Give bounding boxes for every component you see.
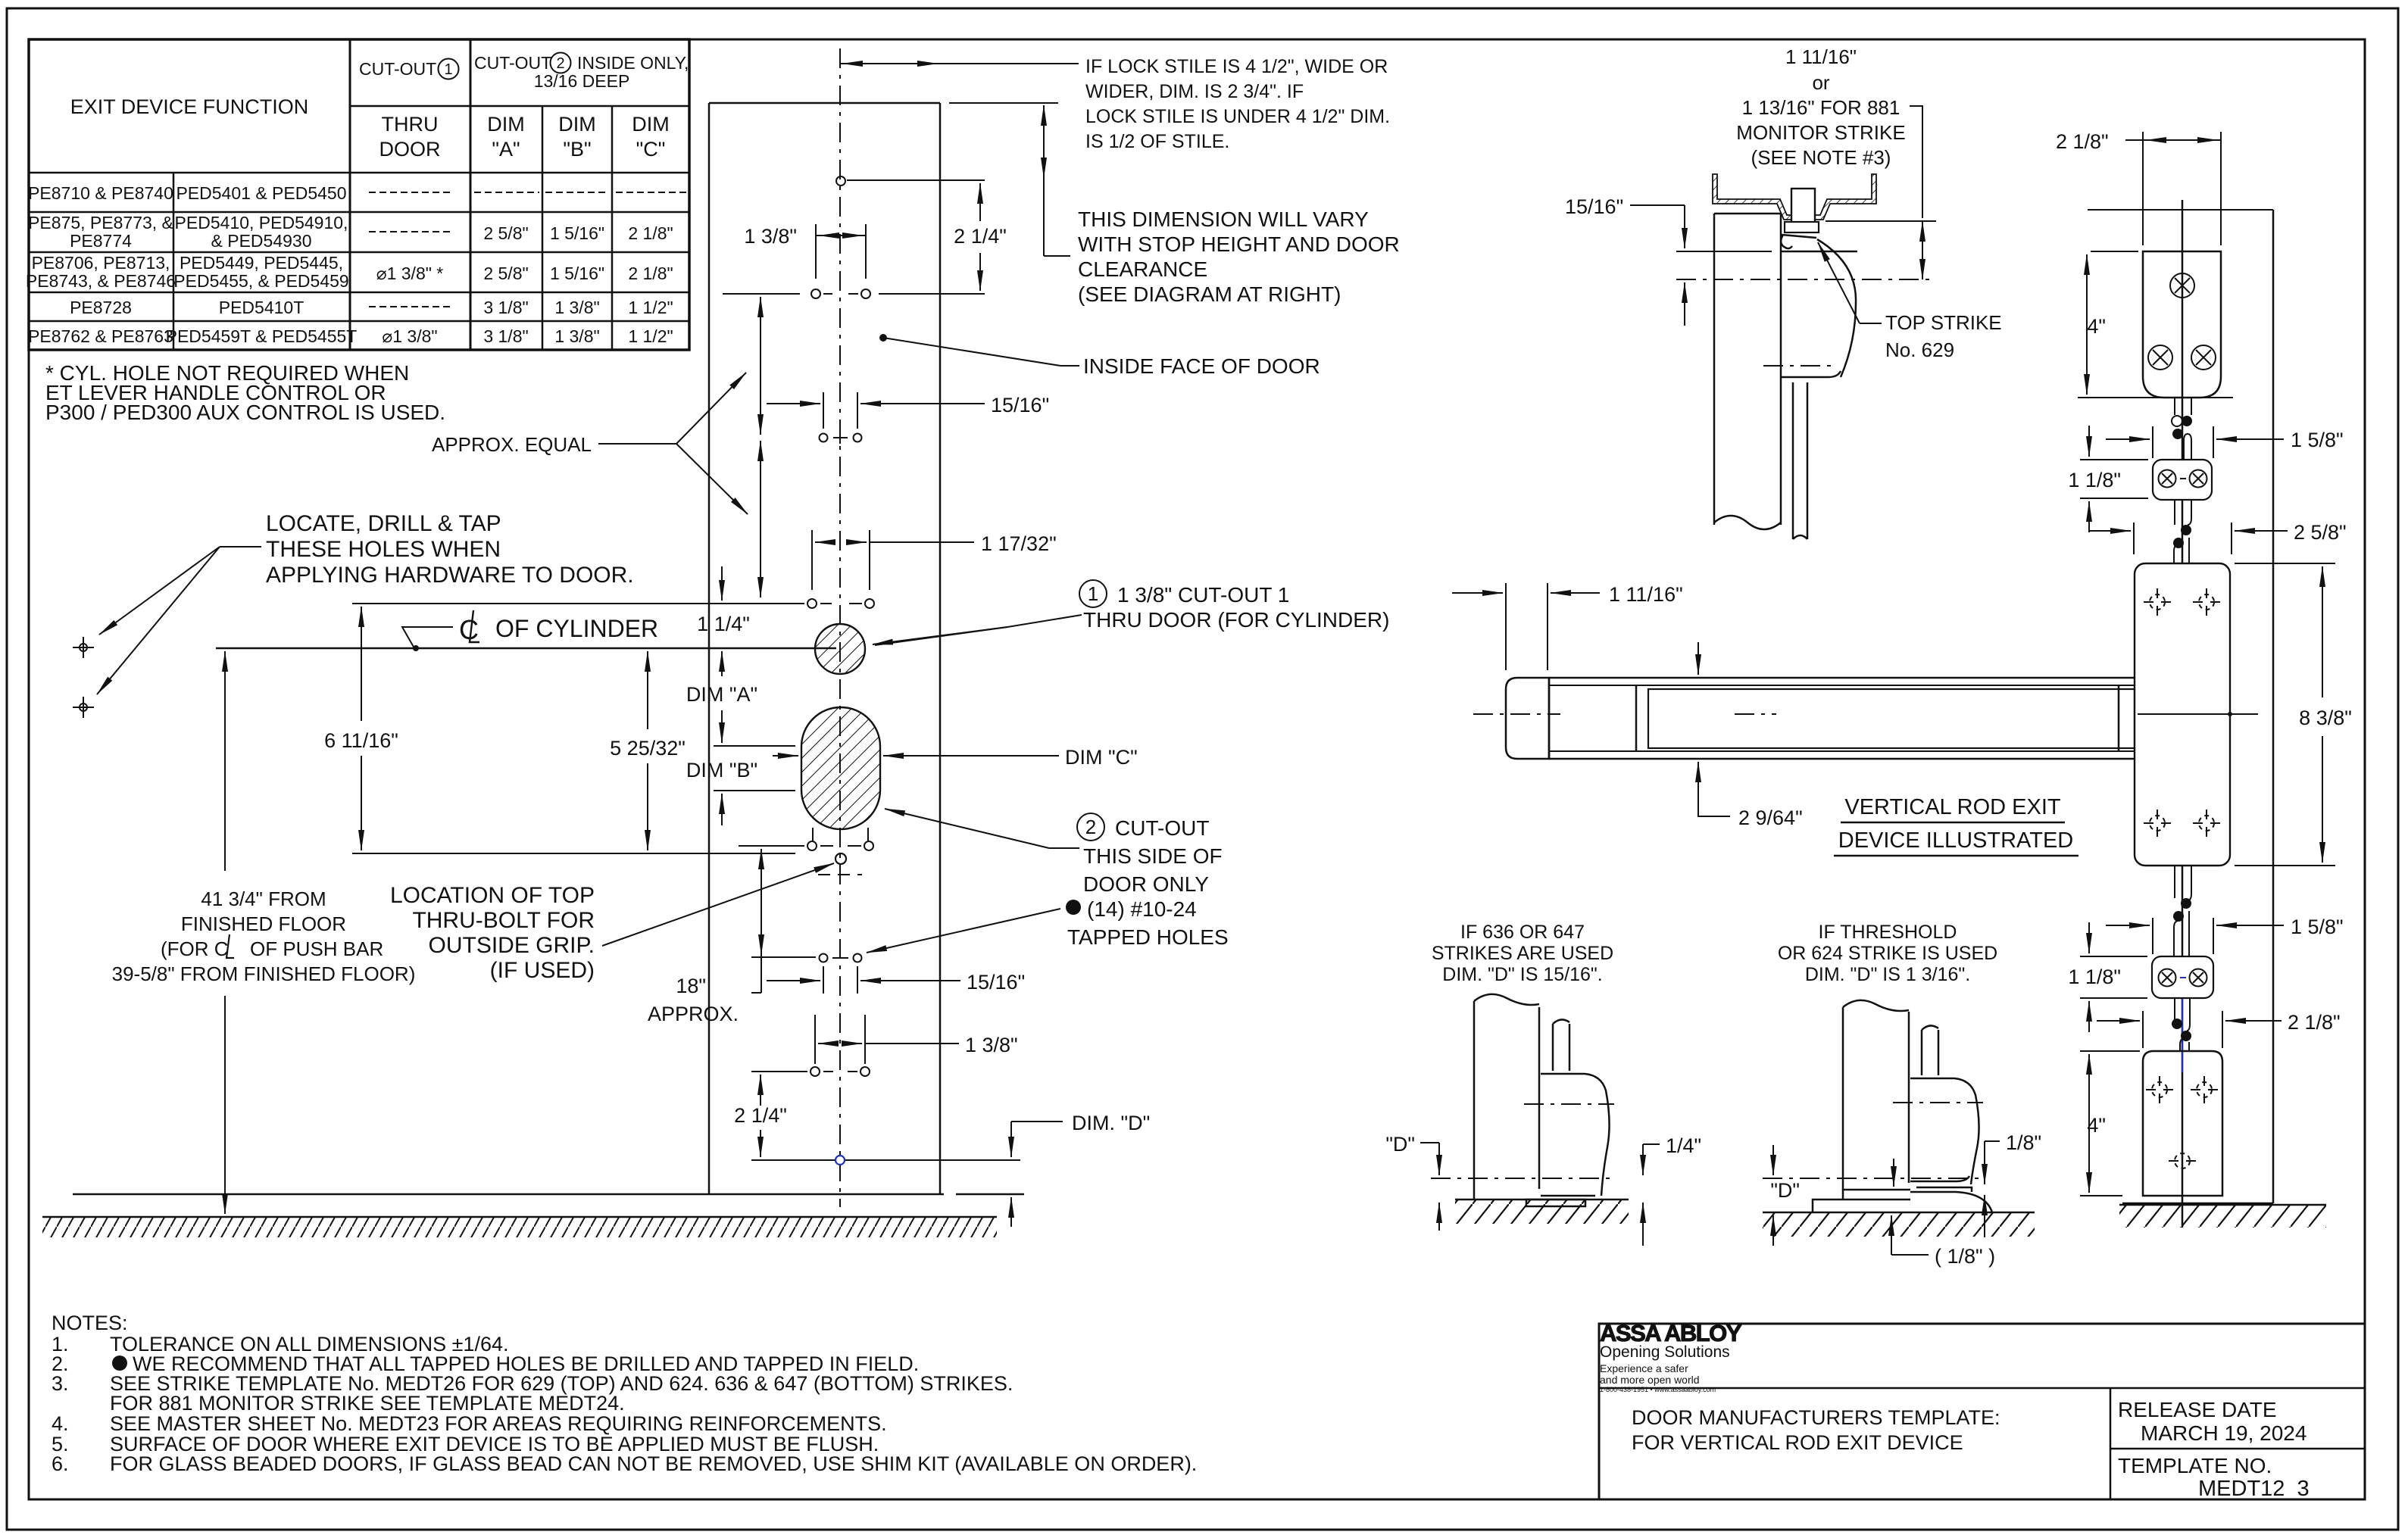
svg-text:4": 4": [2087, 315, 2106, 338]
svg-text:IF 636 OR 647: IF 636 OR 647: [1460, 922, 1585, 943]
svg-text:5 25/32": 5 25/32": [610, 737, 686, 760]
door section left face: [1713, 214, 1716, 525]
svg-text:"D": "D": [1770, 1179, 1800, 1202]
svg-text:1 1/4": 1 1/4": [697, 613, 750, 635]
svg-text:1 1/2": 1 1/2": [628, 326, 673, 346]
svg-text:(FOR C: (FOR C: [161, 937, 229, 960]
svg-text:PE8706, PE8713,: PE8706, PE8713,: [32, 253, 170, 273]
svg-text:6 11/16": 6 11/16": [324, 729, 398, 752]
logo cell divider: [1599, 1387, 2365, 1390]
svg-text:PED5401 & PED5450: PED5401 & PED5450: [176, 183, 346, 203]
svg-text:3 1/8": 3 1/8": [483, 298, 528, 317]
rod below case: [2174, 866, 2175, 898]
svg-text:1 3/8" CUT-OUT 1: 1 3/8" CUT-OUT 1: [1117, 583, 1289, 607]
top dimension line 2 3/4 stile: [840, 63, 940, 64]
svg-text:15/16": 15/16": [1565, 195, 1623, 218]
svg-text:IF LOCK STILE IS 4 1/2", WIDE: IF LOCK STILE IS 4 1/2", WIDE OR: [1085, 56, 1388, 77]
svg-text:"C": "C": [636, 138, 666, 161]
hole row F: [810, 1067, 820, 1076]
strike case: [1910, 1078, 1979, 1184]
dim 18 approx: [761, 849, 762, 883]
upper rod guide: [2153, 460, 2212, 500]
svg-text:15/16": 15/16": [967, 971, 1025, 994]
CL of cylinder line: [216, 647, 836, 650]
svg-text:⌀1 3/8" *: ⌀1 3/8" *: [376, 264, 444, 283]
bar centerline: [1473, 713, 1560, 715]
svg-text:Experience a safer: Experience a safer: [1600, 1362, 1688, 1374]
svg-text:EXIT DEVICE FUNCTION: EXIT DEVICE FUNCTION: [70, 95, 309, 118]
svg-text:1: 1: [444, 61, 452, 78]
svg-text:OF CYLINDER: OF CYLINDER: [495, 615, 658, 642]
svg-text:18": 18": [676, 975, 706, 997]
svg-text:FINISHED FLOOR: FINISHED FLOOR: [181, 913, 346, 935]
svg-text:DIM "B": DIM "B": [686, 759, 757, 781]
svg-text:3 1/8": 3 1/8": [483, 326, 528, 346]
svg-text:15/16": 15/16": [991, 394, 1049, 416]
svg-text:CUT-OUT: CUT-OUT: [474, 53, 551, 73]
svg-text:STRIKES ARE USED: STRIKES ARE USED: [1432, 943, 1613, 964]
dim 1 1/8 top: [2080, 459, 2148, 460]
dim 15/16 lower: [823, 966, 824, 994]
svg-text:2 1/8": 2 1/8": [2056, 130, 2109, 153]
rod below latch: [1792, 382, 1794, 539]
svg-text:OR 624 STRIKE IS USED: OR 624 STRIKE IS USED: [1778, 943, 1997, 964]
door bottom (right view): [2122, 1203, 2273, 1205]
leader to cylinder: [875, 615, 1082, 645]
svg-text:and more open world: and more open world: [1600, 1374, 1700, 1386]
svg-text:13/16 DEEP: 13/16 DEEP: [534, 71, 630, 91]
hatched cylinder cut-out 1: [815, 624, 865, 674]
dim A bottom line: [714, 745, 795, 747]
svg-text:OF PUSH BAR: OF PUSH BAR: [250, 937, 383, 960]
floor: [1763, 1212, 2035, 1214]
svg-text:INSIDE FACE OF DOOR: INSIDE FACE OF DOOR: [1083, 354, 1320, 378]
door leaf: [1842, 1007, 1844, 1190]
svg-text:39-5/8" FROM FINISHED FLOOR): 39-5/8" FROM FINISHED FLOOR): [112, 962, 416, 985]
svg-text:PED5449, PED5445,: PED5449, PED5445,: [180, 253, 343, 273]
dim 1 5/8 bottom: [2152, 918, 2153, 954]
base plate: [1526, 1200, 1585, 1206]
svg-text:1 1/8": 1 1/8": [2068, 469, 2121, 491]
small arrow inside threshold: [1893, 1159, 1894, 1187]
obround side extension lines: [812, 828, 814, 842]
svg-text:1: 1: [1088, 582, 1098, 605]
svg-text:41 3/4" FROM: 41 3/4" FROM: [201, 888, 326, 910]
svg-text:SEE MASTER SHEET No. MEDT23 FO: SEE MASTER SHEET No. MEDT23 FOR AREAS RE…: [110, 1412, 887, 1435]
svg-text:"B": "B": [563, 138, 591, 161]
leader to obround: [1049, 847, 1079, 849]
bar housing top: [1549, 677, 2135, 679]
svg-text:PED5459T & PED5455T: PED5459T & PED5455T: [166, 326, 358, 346]
centerline dashes: [1893, 1102, 1983, 1103]
svg-text:FOR GLASS BEADED DOORS, IF GLA: FOR GLASS BEADED DOORS, IF GLASS BEAD CA…: [110, 1452, 1197, 1475]
pad end line: [2118, 685, 2120, 751]
svg-text:Opening Solutions: Opening Solutions: [1600, 1343, 1730, 1361]
svg-text:2 1/4": 2 1/4": [734, 1104, 787, 1127]
dim 2 1/4 bottom: [760, 1075, 761, 1106]
svg-text:1-800-438-1951 • www.assaabloy: 1-800-438-1951 • www.assaabloy.com: [1600, 1386, 1716, 1393]
approx-equal dimension chain: [760, 297, 761, 332]
svg-text:THESE HOLES WHEN: THESE HOLES WHEN: [266, 537, 501, 562]
svg-text:THIS DIMENSION WILL VARY: THIS DIMENSION WILL VARY: [1078, 207, 1369, 231]
svg-text:APPLYING HARDWARE TO DOOR.: APPLYING HARDWARE TO DOOR.: [266, 563, 634, 588]
floor line right assembly: [2119, 1204, 2326, 1206]
svg-text:DOOR: DOOR: [379, 138, 441, 161]
svg-text:DIM "A": DIM "A": [686, 683, 757, 706]
hole row A (1 3/8 apart): [811, 289, 820, 298]
rod between plate and guide: [2174, 398, 2175, 415]
svg-text:THRU DOOR (FOR CYLINDER): THRU DOOR (FOR CYLINDER): [1083, 608, 1389, 632]
svg-text:(IF USED): (IF USED): [490, 958, 595, 983]
svg-text:WITH STOP HEIGHT AND DOOR: WITH STOP HEIGHT AND DOOR: [1078, 232, 1400, 256]
door bottom edge / floor level line: [73, 1193, 944, 1196]
strike case: [1541, 1074, 1610, 1196]
bottom reference line: [751, 1159, 1020, 1161]
dim 1 1/4: [721, 566, 723, 601]
dim 1 3/8 upper: [815, 224, 817, 279]
door inside face line: [939, 103, 942, 1194]
table header underline: [29, 172, 689, 174]
svg-text:(14) #10-24: (14) #10-24: [1087, 897, 1197, 921]
svg-text:FOR 881 MONITOR STRIKE SEE TEM: FOR 881 MONITOR STRIKE SEE TEMPLATE MEDT…: [110, 1392, 625, 1415]
main device case: [2135, 563, 2230, 866]
svg-text:DOOR ONLY: DOOR ONLY: [1083, 872, 1209, 896]
door vertical centerline: [839, 48, 841, 1207]
latch case top: [1781, 251, 1857, 253]
svg-text:2 1/8": 2 1/8": [2288, 1011, 2341, 1034]
dim A arrows: [721, 651, 723, 672]
svg-text:(SEE DIAGRAM AT RIGHT): (SEE DIAGRAM AT RIGHT): [1078, 282, 1341, 306]
svg-text:PED5410T: PED5410T: [219, 298, 305, 317]
svg-text:1 1/2": 1 1/2": [628, 298, 673, 317]
svg-text:1 13/16" FOR 881: 1 13/16" FOR 881: [1742, 96, 1900, 119]
table column line c2: [349, 39, 351, 350]
door top edge: [709, 102, 940, 105]
svg-text:APPROX.: APPROX.: [648, 1003, 739, 1025]
svg-text:No. 629: No. 629: [1885, 338, 1954, 361]
svg-text:FOR VERTICAL ROD EXIT DEVICE: FOR VERTICAL ROD EXIT DEVICE: [1632, 1431, 1963, 1454]
table row line r2: [29, 251, 689, 254]
door edge line (face view): [2272, 210, 2275, 1203]
svg-text:6.: 6.: [52, 1452, 69, 1475]
door section right face: [1780, 214, 1782, 525]
svg-text:IF THRESHOLD: IF THRESHOLD: [1819, 922, 1957, 943]
dim 2 1/8 bottom: [2142, 1011, 2144, 1048]
svg-text:1 1/8": 1 1/8": [2068, 966, 2121, 988]
top strike mounting plate: [2143, 251, 2221, 398]
door bottom break squiggle: [1714, 516, 1781, 529]
svg-text:2 9/64": 2 9/64": [1738, 806, 1803, 829]
svg-text:"A": "A": [492, 138, 520, 161]
svg-text:MARCH 19, 2024: MARCH 19, 2024: [2141, 1421, 2306, 1445]
svg-text:PE8774: PE8774: [70, 231, 132, 251]
svg-text:1 11/16": 1 11/16": [1609, 583, 1683, 606]
svg-text:1 5/8": 1 5/8": [2291, 429, 2344, 451]
svg-text:2 1/8": 2 1/8": [628, 264, 673, 283]
svg-text:OUTSIDE GRIP.: OUTSIDE GRIP.: [429, 933, 595, 958]
svg-text:CUT-OUT: CUT-OUT: [359, 59, 436, 79]
strike curl: [1781, 235, 1792, 248]
frame head channel (hatched sheet): [1713, 174, 1876, 220]
svg-text:DOOR MANUFACTURERS TEMPLATE:: DOOR MANUFACTURERS TEMPLATE:: [1632, 1406, 2000, 1429]
svg-text:1 5/8": 1 5/8": [2291, 916, 2344, 938]
svg-text:PE8728: PE8728: [70, 298, 132, 317]
rod joint below lower guide: [2172, 1019, 2182, 1029]
svg-text:WIDER, DIM. IS 2 3/4". IF: WIDER, DIM. IS 2 3/4". IF: [1085, 81, 1304, 102]
strike body plates: [1785, 222, 1819, 232]
latch centerline dash: [1676, 279, 1930, 280]
svg-text:1 3/8": 1 3/8": [554, 298, 599, 317]
svg-text:THIS SIDE OF: THIS SIDE OF: [1083, 844, 1223, 868]
svg-text:VERTICAL ROD EXIT: VERTICAL ROD EXIT: [1844, 795, 2061, 819]
dim 2 1/4 top: [979, 183, 981, 221]
svg-text:TEMPLATE NO.: TEMPLATE NO.: [2118, 1454, 2272, 1477]
6 11/16 / 5 25/32 bottom extension line: [352, 853, 795, 854]
star footnote: [45, 361, 445, 424]
door top face line left: [1676, 251, 1772, 252]
thru-bolt hole: [835, 853, 846, 864]
table row line r1: [29, 211, 689, 214]
latch case curved face: [1817, 239, 1856, 377]
stop-height dim (varies): [1043, 105, 1045, 129]
dim B bottom line: [714, 790, 795, 791]
pocket line extension right: [1826, 220, 1936, 222]
bottom case crosshairs: [2146, 1076, 2173, 1103]
svg-text:2 5/8": 2 5/8": [2294, 521, 2347, 544]
svg-text:1 17/32": 1 17/32": [981, 532, 1057, 555]
table sub-header split: [350, 105, 689, 108]
svg-text:DIM: DIM: [632, 113, 670, 136]
svg-text:2: 2: [1085, 816, 1096, 838]
svg-text:DIM. "D": DIM. "D": [1072, 1112, 1150, 1134]
mechanism end line: [1635, 685, 1638, 751]
svg-text:CLEARANCE: CLEARANCE: [1078, 257, 1207, 281]
door top edge (section): [1714, 213, 1781, 215]
cut-out1 callout circled 1: [1079, 580, 1107, 607]
case crosshair screws: [2144, 588, 2171, 616]
svg-text:( 1/8" ): ( 1/8" ): [1935, 1245, 1995, 1268]
floor: [1455, 1199, 1629, 1201]
TABLE TEXT: [26, 53, 689, 347]
dim strike height: [1922, 221, 1923, 235]
svg-text:"D": "D": [1385, 1133, 1415, 1156]
strike bolt: [1791, 189, 1815, 223]
svg-text:2 5/8": 2 5/8": [483, 223, 528, 243]
svg-text:& PED54930: & PED54930: [211, 231, 312, 251]
svg-text:TOP STRIKE: TOP STRIKE: [1885, 311, 2002, 334]
svg-text:DIM: DIM: [487, 113, 525, 136]
table outer box: [29, 39, 689, 350]
bar inner top: [1549, 685, 2135, 686]
svg-text:P300 / PED300 AUX CONTROL IS U: P300 / PED300 AUX CONTROL IS USED.: [45, 401, 445, 424]
svg-text:ASSA ABLOY: ASSA ABLOY: [1600, 1320, 1742, 1346]
dim 1 3/8 lower: [814, 1015, 816, 1064]
hole row E (15/16): [820, 954, 828, 962]
door left stile edge: [708, 103, 711, 1194]
svg-text:4": 4": [2087, 1114, 2106, 1137]
cap joint line: [1548, 678, 1551, 759]
svg-text:DIM. "D" IS 15/16".: DIM. "D" IS 15/16".: [1442, 964, 1602, 985]
dim 2 9/64: [1697, 642, 1699, 675]
svg-text:1 11/16": 1 11/16": [1785, 45, 1857, 68]
dim 1 1/8 bottom: [2080, 956, 2147, 957]
top hole line: [847, 179, 985, 181]
release/template divider: [2110, 1448, 2365, 1450]
svg-text:PE8743, & PE8746: PE8743, & PE8746: [26, 271, 176, 291]
svg-text:4.: 4.: [52, 1412, 69, 1435]
svg-text:C: C: [459, 614, 479, 645]
svg-text:1 5/16": 1 5/16": [550, 223, 604, 243]
svg-text:CUT-OUT: CUT-OUT: [1115, 816, 1209, 840]
svg-text:2 1/8": 2 1/8": [628, 223, 673, 243]
table column line c5: [611, 106, 614, 350]
lower rod guide: [2152, 956, 2213, 998]
cut-out2 callout circled 2: [1077, 813, 1104, 841]
svg-text:MONITOR STRIKE: MONITOR STRIKE: [1736, 121, 1905, 144]
title block outline: [1599, 1324, 2365, 1499]
table column line c1: [173, 173, 175, 350]
svg-text:IS 1/2 OF STILE.: IS 1/2 OF STILE.: [1085, 131, 1229, 152]
svg-text:PE8762 & PE8763: PE8762 & PE8763: [28, 326, 173, 346]
dim 41 3/4 from finished floor: [224, 651, 226, 682]
svg-text:PE8710 & PE8740: PE8710 & PE8740: [28, 183, 173, 203]
dim 4 inch bottom: [2080, 1050, 2140, 1052]
svg-text:2: 2: [556, 55, 564, 72]
latch case bottom: [1781, 371, 1841, 377]
rod centerline: [2182, 200, 2184, 1228]
hatched cut-out 2 obround: [801, 707, 880, 829]
svg-text:1 5/16": 1 5/16": [550, 264, 604, 283]
latch lower dash: [1763, 365, 1837, 367]
svg-text:THRU: THRU: [382, 113, 439, 136]
svg-text:DEVICE ILLUSTRATED: DEVICE ILLUSTRATED: [1838, 828, 2073, 853]
bar inner bottom: [1549, 750, 2135, 752]
table column line c4: [542, 106, 544, 350]
dim 8 3/8: [2235, 563, 2335, 564]
finished floor line: [42, 1216, 997, 1218]
svg-text:INSIDE ONLY,: INSIDE ONLY,: [577, 53, 689, 73]
DIM D callout: [1011, 1121, 1063, 1122]
svg-text:PED5410, PED54910,: PED5410, PED54910,: [175, 213, 348, 232]
svg-text:THRU-BOLT FOR: THRU-BOLT FOR: [412, 908, 595, 933]
threshold profile: [1813, 1190, 1910, 1212]
svg-text:2 1/4": 2 1/4": [954, 225, 1007, 248]
dim 1 17/32: [811, 530, 813, 590]
svg-text:PED5455, & PED5459: PED5455, & PED5459: [173, 271, 348, 291]
leader from note to pocket line: [1910, 106, 1922, 218]
top hole: [836, 176, 845, 186]
svg-text:MEDT12_3: MEDT12_3: [2198, 1477, 2310, 1501]
hole row C (1 17/32 apart): [807, 599, 817, 608]
svg-text:LOCATION OF TOP: LOCATION OF TOP: [390, 883, 595, 908]
svg-text:NOTES:: NOTES:: [52, 1312, 128, 1334]
dim 5 25/32: [647, 651, 648, 685]
rod below guide: [2174, 500, 2175, 525]
svg-text:APPROX. EQUAL: APPROX. EQUAL: [432, 433, 592, 456]
dim 1 11/16: [1505, 583, 1507, 670]
blue rod segment: [2182, 998, 2183, 1072]
bottom hole (blue): [835, 1156, 845, 1165]
rod: [1921, 1030, 1923, 1075]
table row line r4: [29, 320, 689, 323]
TABLE GRID: [29, 39, 689, 350]
drill cross markers: [73, 637, 94, 658]
rod: [1552, 1024, 1554, 1071]
svg-text:DIM. "D" IS 1 3/16".: DIM. "D" IS 1 3/16".: [1805, 964, 1970, 985]
svg-text:1/8": 1/8": [2006, 1131, 2041, 1154]
dim 2 5/8: [2133, 523, 2135, 554]
svg-text:LOCATE, DRILL & TAP: LOCATE, DRILL & TAP: [266, 511, 501, 536]
bottom bolt case: [2143, 1051, 2222, 1196]
table column line c3: [470, 39, 472, 350]
leader to lock stile note: [940, 63, 1079, 64]
push pad: [1648, 689, 2135, 748]
release/template left divider: [2110, 1388, 2112, 1499]
svg-text:8 3/8": 8 3/8": [2299, 707, 2352, 729]
svg-text:1 3/8": 1 3/8": [965, 1034, 1018, 1056]
centerline dashes: [1524, 1103, 1614, 1105]
svg-text:DIM "C": DIM "C": [1065, 746, 1138, 769]
dim C arrows: [773, 755, 798, 757]
dim 4 inch top: [2091, 251, 2138, 252]
bar end cap: [1506, 678, 1549, 759]
svg-text:DIM: DIM: [558, 113, 596, 136]
dim 1 5/8 top: [2152, 426, 2153, 458]
svg-text:RELEASE DATE: RELEASE DATE: [2118, 1398, 2277, 1421]
svg-text:TAPPED HOLES: TAPPED HOLES: [1067, 925, 1229, 949]
svg-text:1/4": 1/4": [1666, 1134, 1701, 1157]
inside face of door leader: [879, 334, 887, 342]
svg-text:LOCK STILE IS UNDER 4 1/2" DIM: LOCK STILE IS UNDER 4 1/2" DIM.: [1085, 106, 1390, 127]
svg-text:2 5/8": 2 5/8": [483, 264, 528, 283]
svg-text:1 3/8": 1 3/8": [554, 326, 599, 346]
door top extension line right: [949, 102, 1058, 104]
dim 6 11/16: [361, 607, 362, 641]
top reference line: [2088, 209, 2273, 211]
svg-text:3.: 3.: [52, 1372, 69, 1395]
thru-bolt dashed line: [818, 874, 862, 875]
leader to thru-bolt: [602, 863, 834, 946]
table row line r3: [29, 292, 689, 294]
svg-text:PE875, PE8773, &: PE875, PE8773, &: [28, 213, 173, 232]
svg-text:⌀1 3/8": ⌀1 3/8": [382, 326, 437, 346]
bar housing bottom: [1549, 758, 2135, 760]
svg-text:(SEE NOTE #3): (SEE NOTE #3): [1751, 146, 1891, 169]
case centerline tick: [2138, 713, 2258, 715]
dim 15/16 upper: [823, 392, 824, 429]
hole row D below obround: [807, 841, 817, 850]
floor hatching: [42, 1217, 997, 1237]
plate screws: [2170, 273, 2194, 298]
svg-text:or: or: [1812, 71, 1829, 94]
svg-text:1 3/8": 1 3/8": [744, 225, 797, 248]
door leaf: [1473, 1001, 1476, 1200]
tapped holes note: [1066, 900, 1081, 915]
hole row B (15/16 apart): [820, 434, 828, 442]
